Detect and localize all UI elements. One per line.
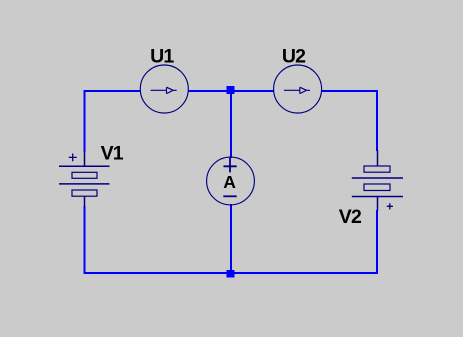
svg-text:U2: U2 [282, 45, 306, 67]
wire top-right horizontal [321, 90, 378, 92]
svg-text:U1: U1 [150, 45, 174, 67]
wire top-left horizontal [83, 90, 140, 92]
label V1 [101, 142, 124, 164]
node bottom junction [227, 270, 235, 278]
label A (ammeter letter) [223, 172, 236, 192]
svg-text:A: A [223, 172, 236, 192]
wire right vertical upper [376, 90, 378, 151]
wire left vertical lower [83, 206, 85, 274]
current source U2 [274, 65, 322, 113]
svg-text:V2: V2 [339, 206, 362, 228]
wire left vertical upper [83, 90, 85, 152]
label U2 [282, 45, 306, 67]
wire right vertical lower [376, 210, 378, 274]
wire middle vertical lower [230, 204, 232, 271]
battery V1 [59, 152, 110, 207]
node top junction [227, 86, 235, 94]
label V2 [339, 206, 362, 228]
wire top between U1 and node [189, 90, 227, 92]
wire top between node and U2 [234, 90, 274, 92]
svg-text:V1: V1 [101, 142, 124, 164]
wire middle vertical upper [230, 93, 232, 158]
current source U1 [140, 65, 188, 113]
wire bottom horizontal [83, 272, 378, 274]
label U1 [150, 45, 174, 67]
battery V2 [352, 150, 403, 211]
ammeter A1 [207, 157, 255, 205]
